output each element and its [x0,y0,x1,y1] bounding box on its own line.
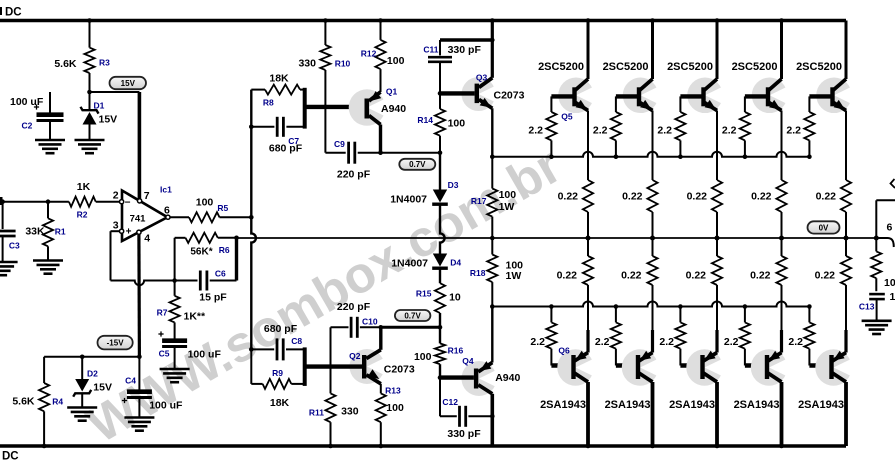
svg-text:C10: C10 [362,317,378,327]
node 0V label [808,221,840,233]
wire [0,19,846,22]
wire [379,327,382,350]
wire [111,231,175,285]
resistor R14 100 [417,93,465,152]
svg-text:10: 10 [890,291,895,303]
node pin3 feedback junction [172,278,177,283]
ground [862,321,892,334]
resistor R16 100 [414,325,463,378]
wire [586,18,591,79]
wire [305,364,362,369]
svg-text:15V: 15V [99,114,118,126]
node 15V label [110,77,147,89]
wire [551,94,574,98]
wire [491,307,493,363]
svg-text:Ic1: Ic1 [160,185,172,195]
svg-text:100: 100 [414,351,432,363]
capacitor C10 220pF [331,301,381,367]
svg-text:2SC5200: 2SC5200 [732,61,778,73]
resistor R12 100 [361,18,405,92]
svg-text:2.2: 2.2 [657,125,672,137]
wire [440,206,445,254]
wire [650,18,655,79]
resistor 0.22 (top #4) [751,111,787,241]
svg-text:5.6K: 5.6K [12,396,35,408]
svg-text:330 pF: 330 pF [448,44,482,56]
wire [0,444,846,447]
wire [0,197,69,205]
resistor R4 5.6K [12,357,63,449]
svg-text:680 pF: 680 pF [269,143,303,155]
svg-text:1K: 1K [77,181,91,193]
ground [33,261,63,274]
svg-text:1K**: 1K** [184,311,207,323]
wire [715,18,720,79]
svg-text:2.2: 2.2 [530,336,545,348]
svg-text:R18: R18 [470,268,486,278]
svg-text:15V: 15V [121,79,136,88]
capacitor C2 [10,92,64,140]
resistor R3 [54,18,110,92]
node +V DC rail label [0,7,22,19]
transistor 2SC5200 #5 (top) [796,61,856,113]
svg-text:C9: C9 [334,139,345,149]
resistor 2.2 (top #4) [722,96,750,159]
resistor R15 10 [416,270,461,328]
wire [492,152,809,157]
svg-text:Q4: Q4 [462,356,474,366]
wire [379,325,441,330]
resistor 0.22 (bottom #5) [815,238,852,353]
capacitor C12 330pF [440,378,495,440]
svg-text:2.2: 2.2 [659,336,674,348]
node R5 output junction [249,215,254,220]
svg-text:6: 6 [887,222,893,234]
resistor 0.22 (top #1) [558,111,594,241]
resistor 0.22 (top #2) [622,111,658,241]
wire [251,90,256,350]
resistor R6 56K* [175,233,237,258]
svg-text:D3: D3 [448,180,459,190]
wire [745,94,768,98]
svg-text:D1: D1 [94,101,105,111]
node -V DC rail label [2,451,19,463]
svg-text:C2073: C2073 [494,89,525,101]
wire [616,94,639,98]
resistor 0.22 (bottom #2) [621,238,658,353]
svg-text:C8: C8 [291,336,302,346]
svg-text:0.22: 0.22 [558,191,579,203]
svg-text:2SC5200: 2SC5200 [603,61,649,73]
svg-text:R4: R4 [52,397,63,407]
svg-text:A940: A940 [495,372,520,384]
diode D2 zener 15V [73,355,112,408]
svg-text:2SA1943: 2SA1943 [734,399,780,411]
svg-text:A940: A940 [381,103,406,115]
wire [174,238,176,281]
svg-text:220 pF: 220 pF [337,169,371,181]
ground [124,418,154,431]
wire [876,238,894,247]
pin 7 [138,190,150,203]
capacitor C13 [859,291,895,321]
node output junction [874,236,879,241]
svg-text:2SA1943: 2SA1943 [540,399,586,411]
resistor 0.22 (bottom #4) [750,238,787,353]
svg-text:1N4007: 1N4007 [391,257,428,269]
resistor 2.2 (top #3) [657,96,685,159]
capacitor C9 220pF [325,107,380,181]
resistor 0.22 (top #5) [816,111,852,241]
svg-text:56K*: 56K* [190,247,212,258]
svg-text:C6: C6 [215,269,226,279]
svg-text:DC: DC [2,451,19,463]
wire [492,302,809,307]
wire [138,92,142,200]
ground [0,262,18,275]
resistor R2 1K [69,181,120,220]
svg-text:0.22: 0.22 [815,270,836,282]
svg-text:100: 100 [499,189,517,201]
svg-text:330: 330 [298,58,316,70]
svg-text:741: 741 [130,214,147,225]
svg-text:R17: R17 [471,196,487,206]
resistor 2.2 (top #1) [528,96,556,159]
resistor 2.2 (top #2) [593,96,621,159]
transistor 2SA1943 #1 (bottom) [540,349,598,411]
svg-text:0.22: 0.22 [621,270,642,282]
svg-text:R12: R12 [361,49,377,59]
svg-text:10: 10 [884,277,895,289]
svg-text:D2: D2 [87,369,98,379]
svg-text:0.22: 0.22 [750,270,771,282]
transistor 2SC5200 #1 (top) [538,61,598,113]
svg-text:R13: R13 [385,385,401,395]
wire [844,382,848,446]
resistor 2.2 (bottom #2) [595,304,621,365]
svg-text:0V: 0V [819,223,829,232]
svg-text:100 uF: 100 uF [10,96,44,108]
wire [680,94,703,98]
svg-text:2.2: 2.2 [595,336,610,348]
pin 6 [164,205,170,220]
svg-text:1W: 1W [499,201,515,213]
svg-text:2.2: 2.2 [528,125,543,137]
svg-text:Q3: Q3 [476,72,488,82]
svg-text:2SA1943: 2SA1943 [669,399,715,411]
resistor 2.2 (top #5) [786,96,814,159]
svg-text:C11: C11 [423,44,438,54]
resistor R11 330 [309,367,359,449]
wire [490,18,495,78]
svg-text:100: 100 [196,197,214,209]
pin 3 [113,220,124,234]
svg-text:DC: DC [5,7,22,19]
resistor R9 18K [251,349,304,409]
svg-text:Q5: Q5 [561,112,573,122]
svg-text:R7: R7 [157,308,168,318]
wire [586,382,591,448]
ground [160,369,190,382]
svg-text:3: 3 [113,220,119,232]
resistor 10 (Zobel) [871,238,895,291]
svg-text:33K: 33K [25,226,45,238]
svg-text:-15V: -15V [107,339,125,348]
svg-text:−: − [125,197,131,208]
wire [137,234,141,357]
wire [305,105,366,109]
wire [809,363,831,367]
node -15V label [98,336,133,350]
svg-text:10: 10 [449,291,461,303]
ground [67,408,97,421]
resistor R5 100 [170,197,251,223]
svg-text:2.2: 2.2 [786,125,801,137]
svg-text:100 uF: 100 uF [149,400,183,412]
wire [876,200,895,238]
diode D1 zener 15V [81,92,118,140]
capacitor C6 15pF [175,269,237,304]
svg-text:+: + [126,227,132,238]
svg-text:R16: R16 [448,345,464,355]
resistor R17 100 1W [471,154,516,238]
svg-text:4: 4 [144,233,150,245]
transistor 2SC5200 #2 (top) [603,61,663,113]
svg-text:C2073: C2073 [384,363,415,375]
transistor 2SA1943 #2 (bottom) [605,349,663,411]
wire [845,21,848,80]
svg-text:2SC5200: 2SC5200 [796,61,842,73]
svg-text:18K: 18K [270,397,290,409]
svg-text:C2: C2 [22,121,33,131]
wire [650,382,655,448]
svg-text:D4: D4 [450,257,461,267]
transistor Q1 A940 [349,87,407,126]
diode D4 1N4007 [391,254,461,270]
wire [779,18,784,79]
resistor 0.22 (top #3) [687,111,723,241]
wire [378,150,442,155]
svg-text:R11: R11 [309,407,324,417]
wire [490,394,494,446]
svg-text:R1: R1 [55,227,66,237]
node 0.7V label top [399,159,435,170]
wire [809,94,832,98]
svg-text:R3: R3 [99,58,110,68]
capacitor C4 100uF [122,355,183,418]
transistor 2SA1943 #4 (bottom) [734,349,792,411]
resistor R1 33K [25,202,66,261]
svg-text:2: 2 [113,190,119,202]
transistor Q4 A940 [462,356,521,396]
pin 2 [113,190,124,204]
resistor R7 1K** [157,281,206,339]
resistor R10 330 [298,18,350,107]
resistor cut at right edge [887,179,895,234]
svg-text:15 pF: 15 pF [199,292,227,304]
svg-text:R10: R10 [335,59,351,69]
resistor 2.2 (bottom #4) [724,304,750,365]
svg-text:Q2: Q2 [349,351,361,361]
svg-text:220 pF: 220 pF [337,301,371,313]
transistor Q3 C2073 [438,72,525,111]
svg-text:2.2: 2.2 [722,125,737,137]
svg-text:0.22: 0.22 [686,270,707,282]
svg-text:0.22: 0.22 [816,191,837,203]
svg-text:C12: C12 [442,397,458,407]
svg-text:0.22: 0.22 [622,191,643,203]
node Q1 base junction [323,105,328,110]
capacitor C8 680pF [249,323,305,360]
resistor 0.22 (bottom #3) [686,238,723,353]
svg-text:15V: 15V [93,382,112,394]
wire [234,236,239,281]
wire [379,125,382,153]
svg-text:2SC5200: 2SC5200 [667,61,713,73]
resistor 2.2 (bottom #3) [659,304,685,365]
wire [44,356,139,358]
capacitor C3 [0,202,20,262]
wire [438,375,474,380]
resistor R18 100 1W [470,236,523,307]
svg-text:2SA1943: 2SA1943 [798,399,844,411]
svg-text:0.22: 0.22 [557,270,578,282]
wire [715,382,720,448]
svg-text:C4: C4 [125,376,136,386]
svg-text:100: 100 [386,402,404,414]
ground [35,140,65,153]
pin 4 [137,230,150,244]
svg-text:C3: C3 [9,241,20,251]
wire [616,363,638,367]
svg-text:1N4007: 1N4007 [390,194,427,206]
svg-text:R14: R14 [417,115,433,125]
wire [491,108,493,156]
svg-text:C13: C13 [859,301,875,311]
resistor R13 100 [376,384,404,449]
svg-text:Q6: Q6 [558,345,570,355]
svg-text:2.2: 2.2 [788,336,803,348]
node lower bias junction [490,304,495,309]
node 15V junction [87,90,92,95]
svg-text:100 uF: 100 uF [188,349,222,361]
resistor 2.2 (bottom #5) [788,304,814,365]
svg-text:2SC5200: 2SC5200 [538,61,584,73]
svg-text:C5: C5 [159,349,170,359]
svg-text:6: 6 [164,205,170,217]
capacitor C11 330pF [423,38,494,94]
svg-text:2.2: 2.2 [593,125,608,137]
transistor 2SA1943 #3 (bottom) [669,349,727,411]
resistor 2.2 (bottom #1) [530,304,556,365]
svg-text:0.7V: 0.7V [409,160,426,169]
svg-text:18K: 18K [269,73,289,85]
wire [90,91,140,93]
svg-text:330: 330 [341,405,359,417]
wire [303,347,307,386]
op-amp Ic1 741 [122,185,172,242]
node 0.7V label bottom [395,310,431,321]
wire [551,363,573,367]
resistor R8 18K [251,73,304,108]
svg-text:1W: 1W [506,270,522,282]
transistor Q2 C2073 [349,349,415,384]
svg-text:0.7V: 0.7V [404,311,421,320]
svg-text:R2: R2 [77,210,88,220]
transistor 2SC5200 #3 (top) [667,61,727,113]
svg-text:680 pF: 680 pF [264,323,298,335]
svg-text:100: 100 [448,118,466,130]
diode D3 1N4007 [390,153,459,206]
capacitor C5 100uF [158,331,221,369]
svg-text:100: 100 [387,55,405,67]
transistor 2SA1943 #5 (bottom) [798,349,856,411]
capacitor C7 680pF [249,117,305,155]
svg-text:7: 7 [144,190,150,202]
wire [779,382,784,448]
transistor 2SC5200 #4 (top) [732,61,792,113]
svg-text:0.22: 0.22 [687,191,708,203]
wire [680,363,702,367]
ground [75,140,105,153]
wire [237,237,877,239]
svg-text:5.6K: 5.6K [54,58,77,70]
watermark [78,136,570,453]
svg-text:0.22: 0.22 [751,191,772,203]
transistor label Q5 [561,112,573,122]
svg-text:R8: R8 [263,98,274,108]
svg-text:2SA1943: 2SA1943 [605,399,651,411]
svg-text:330 pF: 330 pF [447,428,481,440]
svg-text:2.2: 2.2 [724,336,739,348]
svg-text:R15: R15 [416,288,432,298]
svg-text:R9: R9 [272,368,283,378]
resistor 0.22 (bottom #1) [557,238,594,353]
wire [303,88,307,129]
svg-text:R6: R6 [219,245,230,255]
svg-text:Q1: Q1 [386,87,398,97]
svg-text:R5: R5 [217,203,228,213]
wire [745,363,767,367]
transistor label Q6 [558,345,570,355]
